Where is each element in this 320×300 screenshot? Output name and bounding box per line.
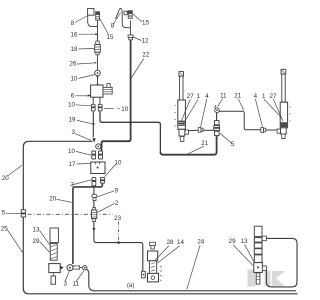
svg-text:11: 11 bbox=[73, 281, 80, 288]
svg-text:26: 26 bbox=[70, 61, 77, 68]
svg-text:12: 12 bbox=[142, 38, 149, 45]
svg-text:10: 10 bbox=[68, 148, 75, 155]
svg-text:20: 20 bbox=[49, 196, 56, 203]
svg-text:4: 4 bbox=[205, 93, 209, 100]
svg-text:15: 15 bbox=[107, 34, 114, 41]
svg-text:13: 13 bbox=[33, 227, 40, 234]
svg-text:19: 19 bbox=[69, 117, 76, 124]
svg-text:2: 2 bbox=[115, 200, 119, 207]
svg-text:(a): (a) bbox=[127, 283, 134, 289]
svg-text:10: 10 bbox=[115, 160, 122, 167]
svg-text:8: 8 bbox=[71, 20, 75, 27]
svg-text:4: 4 bbox=[254, 93, 258, 100]
svg-text:14: 14 bbox=[177, 239, 184, 246]
svg-text:10: 10 bbox=[121, 106, 128, 113]
svg-text:5: 5 bbox=[231, 141, 235, 148]
svg-text:21: 21 bbox=[201, 140, 208, 147]
svg-text:27: 27 bbox=[187, 93, 194, 100]
svg-text:28: 28 bbox=[167, 239, 174, 246]
svg-text:1: 1 bbox=[197, 93, 201, 100]
svg-text:25: 25 bbox=[1, 226, 8, 233]
svg-text:3: 3 bbox=[71, 129, 75, 136]
svg-text:27: 27 bbox=[270, 93, 277, 100]
svg-text:10: 10 bbox=[71, 75, 78, 82]
svg-text:10: 10 bbox=[68, 101, 75, 108]
svg-text:9: 9 bbox=[115, 188, 119, 195]
svg-text:11: 11 bbox=[220, 92, 227, 99]
svg-text:15: 15 bbox=[142, 20, 149, 27]
svg-text:18: 18 bbox=[71, 46, 78, 53]
svg-text:23: 23 bbox=[114, 215, 121, 222]
svg-text:20: 20 bbox=[2, 175, 9, 182]
svg-text:5: 5 bbox=[2, 209, 6, 216]
svg-text:13: 13 bbox=[241, 238, 248, 245]
svg-text:16: 16 bbox=[71, 31, 78, 38]
svg-text:21: 21 bbox=[234, 92, 241, 99]
svg-text:1: 1 bbox=[262, 93, 266, 100]
svg-text:6: 6 bbox=[71, 92, 75, 99]
svg-text:29: 29 bbox=[33, 238, 40, 245]
svg-text:7: 7 bbox=[71, 182, 75, 189]
svg-text:8: 8 bbox=[111, 23, 115, 30]
svg-text:22: 22 bbox=[142, 51, 149, 58]
svg-text:29: 29 bbox=[229, 238, 236, 245]
svg-text:3: 3 bbox=[63, 281, 67, 288]
svg-text:24: 24 bbox=[197, 238, 204, 245]
svg-text:17: 17 bbox=[69, 161, 76, 168]
